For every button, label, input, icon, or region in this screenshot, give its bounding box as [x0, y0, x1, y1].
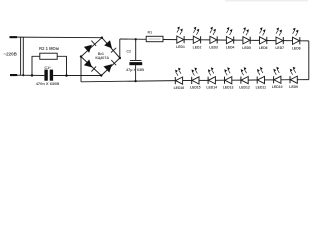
terminal bar top (mains pin) — [10, 36, 18, 38]
LED LED2 — [193, 27, 200, 44]
LED LED3 — [210, 27, 217, 44]
junction dot R2 right — [65, 74, 68, 77]
svg-text:LED14: LED14 — [206, 86, 217, 90]
svg-text:LED13: LED13 — [223, 86, 234, 90]
svg-text:C2: C2 — [126, 50, 131, 54]
LED LED4 — [226, 27, 233, 44]
LED LED14 — [208, 67, 216, 84]
LED LED10 — [273, 67, 281, 84]
wire DC minus drop from bridge left corner — [80, 57, 82, 82]
svg-text:LED12: LED12 — [239, 85, 250, 89]
svg-text:LED11: LED11 — [256, 85, 266, 89]
bridge diode D-lower-right — [104, 60, 117, 72]
terminal bar bottom (mains pin) — [10, 74, 17, 76]
LED LED11 — [257, 67, 265, 84]
svg-text:LED2: LED2 — [193, 45, 202, 49]
bridge diode D-lower-left — [84, 60, 96, 72]
wire DC plus rail — [120, 38, 146, 40]
resistor R1 body — [146, 36, 163, 41]
LED LED15 — [192, 67, 200, 84]
wire bottom AC rail left of C1 — [17, 74, 44, 76]
svg-text:LED5: LED5 — [242, 46, 251, 50]
wire LED bottom row interconnects — [183, 79, 309, 82]
junction dot R2 left — [31, 74, 34, 77]
wire bottom AC rail right of C1 — [53, 75, 101, 77]
resistor R2 left lead wire — [32, 56, 40, 75]
svg-text:C1*: C1* — [44, 66, 51, 70]
LED LED13 — [224, 67, 232, 84]
junction dot C2 top — [135, 38, 137, 40]
wire R1 to LED1 — [163, 39, 177, 41]
junction dot bridge left — [80, 55, 82, 57]
svg-text:LED7: LED7 — [275, 46, 284, 50]
resistor R2 body — [40, 53, 57, 59]
junction dot bridge right — [119, 57, 121, 59]
wire DC minus return rail — [81, 81, 175, 82]
capacitor C2 top lead wire — [135, 39, 137, 60]
svg-text:R2 1 МОм: R2 1 МОм — [39, 46, 59, 51]
resistor R2 right lead wire — [57, 56, 66, 75]
svg-text:LED1: LED1 — [176, 45, 185, 49]
svg-text:LED6: LED6 — [259, 46, 268, 50]
svg-text:LED3: LED3 — [209, 46, 218, 50]
resistor R1 faint value mark — [149, 38, 161, 39]
junction dot C2 bottom — [135, 80, 137, 82]
junction dot bridge bottom — [100, 74, 102, 76]
svg-text:КЦ407А: КЦ407А — [95, 56, 109, 60]
svg-text:LED4: LED4 — [226, 46, 235, 50]
LED LED5 — [243, 27, 250, 44]
svg-text:LED16: LED16 — [174, 86, 185, 90]
LED LED9 — [290, 67, 298, 84]
LED LED7 — [276, 28, 283, 45]
bridge Br1 diamond edges — [81, 38, 120, 76]
svg-text:47µ X 63В: 47µ X 63В — [126, 68, 144, 72]
faint scan artifact top edge — [225, 0, 308, 1]
svg-text:~220В: ~220В — [4, 52, 18, 57]
svg-text:R1: R1 — [147, 31, 152, 35]
bridge diode D-upper-right — [104, 40, 116, 52]
junction dot bridge top — [101, 37, 103, 39]
wire DC plus riser from bridge right corner — [119, 39, 121, 58]
junction dot plug bottom — [22, 74, 24, 76]
bridge diode D-upper-left — [84, 41, 96, 53]
LED LED8 — [293, 28, 300, 45]
LED LED6 — [260, 27, 267, 44]
capacitor C2 plates (polarized) — [129, 61, 142, 66]
capacitor C1 plates — [44, 70, 53, 81]
plug connector symbol vertical lines — [21, 37, 24, 76]
wire right side vertical — [308, 41, 310, 80]
svg-text:LED9: LED9 — [289, 85, 298, 89]
LED LED12 — [241, 67, 249, 84]
svg-text:470n X 630В: 470n X 630В — [36, 81, 60, 86]
capacitor C2 bottom lead wire — [135, 65, 137, 81]
svg-text:LED10: LED10 — [272, 85, 283, 89]
svg-text:LED8: LED8 — [292, 46, 301, 50]
wire top AC rail — [17, 36, 102, 39]
LED LED16 — [175, 68, 183, 85]
LED LED1 — [177, 27, 184, 44]
svg-text:LED15: LED15 — [190, 86, 201, 90]
wire LED top row interconnects — [184, 40, 309, 41]
